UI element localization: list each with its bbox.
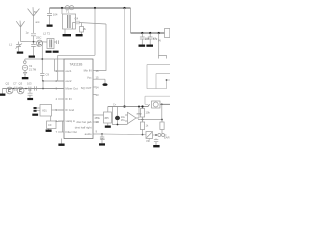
wire (p3 to squelch) xyxy=(158,33,160,56)
svg-text:C9: C9 xyxy=(46,73,50,77)
node rail1 xyxy=(61,7,63,9)
node w2b xyxy=(161,119,163,121)
ground (C2) xyxy=(29,56,35,58)
svg-text:IF IN: IF IN xyxy=(66,97,72,101)
svg-text:103: 103 xyxy=(27,82,32,86)
pin 2 xyxy=(58,80,64,82)
node osc3 xyxy=(42,88,44,90)
capacitor C5 xyxy=(140,33,145,45)
svg-text:16: 16 xyxy=(96,69,100,73)
wire audio top xyxy=(108,104,170,106)
pin numbers left xyxy=(56,69,58,134)
ground (T1) xyxy=(63,34,71,36)
svg-text:T1: T1 xyxy=(66,10,70,14)
connector J1 xyxy=(165,29,170,38)
transformer T2 xyxy=(46,39,54,49)
pin 13 stub xyxy=(93,94,97,96)
svg-text:C+: C+ xyxy=(113,104,117,107)
svg-text:Q3: Q3 xyxy=(19,82,23,86)
svg-text:audio: audio xyxy=(85,132,92,136)
wire V+ vertical xyxy=(124,8,126,107)
capacitor C3 (rail decoupling) xyxy=(47,8,52,25)
svg-text:IF Gnd: IF Gnd xyxy=(66,108,75,112)
node osc1 xyxy=(13,88,15,90)
ground (IC gnd pin) xyxy=(61,139,63,144)
node sq xyxy=(166,79,168,81)
node A xyxy=(33,41,35,43)
pin 16 xyxy=(93,70,99,72)
node p2 xyxy=(149,32,151,34)
svg-text:14: 14 xyxy=(96,85,100,89)
node w3b xyxy=(142,134,144,136)
capacitor C9 (pin2 feed) xyxy=(40,42,44,81)
svg-text:Mixer Out: Mixer Out xyxy=(66,87,78,91)
svg-text:Vcc: Vcc xyxy=(87,75,92,79)
capacitor C4 (coupling) xyxy=(77,21,106,71)
pin labels left inside xyxy=(66,69,78,134)
IC U1 TA31136 xyxy=(64,59,93,139)
svg-text:104: 104 xyxy=(145,38,150,41)
svg-text:9V: 9V xyxy=(158,40,161,43)
capacitor C2 xyxy=(31,42,36,56)
ground (CF1) xyxy=(105,126,111,128)
svg-text:1p: 1p xyxy=(26,31,30,35)
svg-text:2SC: 2SC xyxy=(36,36,41,40)
wire W2 xyxy=(138,119,162,121)
supply rail xyxy=(50,7,131,9)
svg-text:EAR: EAR xyxy=(164,136,170,140)
detector D1 xyxy=(152,101,161,108)
ground (trimmer) xyxy=(17,52,23,54)
node loop xyxy=(117,124,119,126)
ceramic filter CF1 xyxy=(93,107,112,126)
svg-text:C7: C7 xyxy=(13,82,17,86)
phone jack J2 xyxy=(158,134,167,137)
ground (X2) xyxy=(22,77,29,79)
svg-text:C4: C4 xyxy=(75,17,79,21)
node w3a xyxy=(101,133,103,135)
antenna ANT2 xyxy=(28,7,40,33)
wire (tank top to V line) xyxy=(58,54,95,56)
capacitor C11 xyxy=(100,134,104,143)
resistor R3 xyxy=(140,120,144,135)
inductor L3 (rail bead) xyxy=(65,6,73,10)
node amp out xyxy=(138,106,140,108)
ground (X1) xyxy=(32,114,38,116)
crystal X2 chain xyxy=(22,59,64,77)
pin 6 xyxy=(58,120,64,122)
svg-text:21.7M: 21.7M xyxy=(29,67,36,71)
node C9x xyxy=(41,58,43,60)
wire oscillator row xyxy=(3,88,65,90)
capacitor C6 xyxy=(148,33,153,45)
svg-text:osc2: osc2 xyxy=(66,79,72,83)
svg-text:VR: VR xyxy=(146,139,150,143)
pin 5 xyxy=(58,109,64,111)
audio loop xyxy=(113,107,128,125)
svg-text:TA3113B: TA3113B xyxy=(70,63,83,67)
node osc2 xyxy=(25,88,27,90)
wire W3 xyxy=(102,134,158,135)
svg-text:10k: 10k xyxy=(146,111,151,115)
capacitor C13 xyxy=(35,86,37,90)
wire (row link) xyxy=(42,81,44,89)
trimmer L1 xyxy=(16,42,23,52)
svg-text:Filter Out: Filter Out xyxy=(66,130,78,134)
pin 7 xyxy=(58,131,64,133)
transistor Q3 xyxy=(17,87,24,94)
node w2a xyxy=(142,119,144,121)
transformer T1 xyxy=(62,8,76,34)
svg-text:Q2: Q2 xyxy=(6,82,10,86)
node w1r2 xyxy=(141,105,143,107)
ground (C3) xyxy=(47,25,53,27)
svg-text:SQ OUT: SQ OUT xyxy=(81,86,92,90)
capacitor (T2 tank) xyxy=(54,40,59,44)
wire (rail to power row) xyxy=(131,32,165,34)
ground (row left) xyxy=(2,89,4,94)
ground (C5) xyxy=(139,45,146,47)
svg-text:47u: 47u xyxy=(153,38,158,41)
svg-text:455: 455 xyxy=(104,116,109,120)
svg-text:Mix IN: Mix IN xyxy=(84,69,92,73)
wire front-end xyxy=(21,41,37,43)
pin 1 xyxy=(58,70,64,72)
node rail2 xyxy=(94,7,96,9)
node B xyxy=(42,80,44,82)
wire (rail corner) xyxy=(130,8,132,33)
svg-text:disc het gab: disc het gab xyxy=(76,120,92,124)
ground (T2 primary) xyxy=(46,51,52,53)
node V+ audio xyxy=(123,105,125,107)
ground (R1) xyxy=(76,34,83,36)
pin 10 xyxy=(93,121,99,123)
wire (to pin2) xyxy=(43,80,65,82)
wire (tank to pin2) xyxy=(57,55,59,81)
svg-text:ant: ant xyxy=(36,20,40,24)
node rail3 xyxy=(123,7,125,9)
capacitor C7 xyxy=(15,87,17,91)
svg-text:CF: CF xyxy=(48,123,52,127)
pin 3 xyxy=(58,88,64,90)
pin 9 wire xyxy=(93,133,102,135)
pin 14 stub xyxy=(93,86,97,88)
svg-text:104: 104 xyxy=(53,13,58,17)
svg-text:47u: 47u xyxy=(100,137,105,141)
squelch pot (partial) xyxy=(159,56,167,59)
node w3c xyxy=(155,134,157,136)
wire (rail2 down) xyxy=(94,8,96,55)
ground (C11) xyxy=(99,143,105,145)
ground (CF2) xyxy=(46,130,52,132)
svg-text:xtal/q in: xtal/q in xyxy=(66,119,76,123)
wire (T2 to pin1) xyxy=(55,59,65,71)
ceramic filter CF2 xyxy=(47,116,65,132)
svg-text:13: 13 xyxy=(96,93,100,97)
svg-text:amp: amp xyxy=(137,113,143,116)
resistor R4 xyxy=(160,104,164,134)
resistor R1 xyxy=(80,23,84,34)
svg-text:dext half right: dext half right xyxy=(75,126,92,130)
node p3 xyxy=(158,32,160,34)
crystal X1 module xyxy=(34,105,65,117)
resistor R2 xyxy=(140,107,144,120)
capacitor C10 electrolytic xyxy=(115,107,120,125)
ground (C8) xyxy=(27,98,33,100)
node d1 xyxy=(161,103,163,105)
ground (C6) xyxy=(146,45,153,47)
pin 4 xyxy=(58,98,64,100)
pin labels right inside xyxy=(75,69,92,137)
squelch wires xyxy=(145,65,170,105)
ground (T2 secondary) xyxy=(53,51,59,53)
node p1 xyxy=(141,32,143,34)
svg-text:5p: 5p xyxy=(37,44,41,48)
capacitor C1 (antenna series) xyxy=(31,34,36,42)
svg-text:10: 10 xyxy=(96,120,100,124)
pin 15 bead xyxy=(93,79,105,83)
svg-text:L2 T2: L2 T2 xyxy=(43,32,51,36)
svg-text:osc1: osc1 xyxy=(66,69,72,73)
svg-text:L1: L1 xyxy=(9,43,13,47)
ground (C12) xyxy=(153,145,159,147)
volume VR1 xyxy=(146,132,153,140)
svg-text:455k: 455k xyxy=(95,117,101,120)
svg-text:X01: X01 xyxy=(42,109,47,113)
antenna ANT1 xyxy=(16,21,24,42)
op-amp U2 xyxy=(125,107,139,124)
transistor Q2 xyxy=(6,87,13,94)
transistor Q1 xyxy=(37,40,47,46)
svg-text:15: 15 xyxy=(96,76,100,80)
capacitor C8 xyxy=(28,87,33,98)
pin numbers right xyxy=(96,69,100,134)
capacitor C12 xyxy=(154,139,158,146)
